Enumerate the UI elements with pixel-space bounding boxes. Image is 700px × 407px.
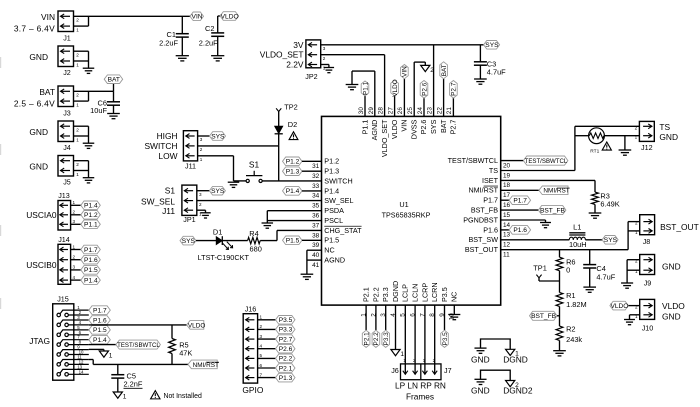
svg-text:2: 2 [76,53,79,58]
svg-text:VIN: VIN [402,66,409,77]
svg-text:SWITCH: SWITCH [144,141,177,151]
svg-text:J3: J3 [63,108,71,117]
capacitor C5 [111,364,143,392]
connector JP2 VLDO_SET [260,40,326,81]
wire VLDO from J15 pin 4 [89,324,187,326]
svg-text:31: 31 [312,163,320,170]
ground R3 [589,213,602,218]
svg-text:33: 33 [312,183,320,190]
svg-text:J11: J11 [162,206,175,216]
svg-text:1: 1 [323,66,326,71]
svg-text:P3.3: P3.3 [381,287,390,302]
net label P2.1 bottom [362,305,370,347]
svg-text:2: 2 [76,162,79,167]
net labels J16 [276,316,296,382]
svg-text:J5: J5 [63,177,71,186]
ground J9 [621,283,633,288]
svg-text:VLDO: VLDO [188,322,205,329]
svg-text:DGND2: DGND2 [503,386,533,396]
diode D2 [275,120,298,146]
svg-text:NMI/RST: NMI/RST [193,362,219,369]
svg-text:J14: J14 [58,235,70,244]
svg-text:VLDO: VLDO [392,79,399,96]
svg-text:P1.1: P1.1 [360,120,369,135]
svg-text:J15: J15 [57,295,69,304]
svg-text:2: 2 [200,147,203,152]
resistor R4 680 [222,229,277,253]
svg-text:30: 30 [358,107,365,115]
ground J4 [83,143,95,148]
svg-text:J9: J9 [644,279,652,288]
svg-text:P2.1: P2.1 [279,365,293,372]
svg-text:10uH: 10uH [569,240,587,249]
svg-text:C2: C2 [205,24,214,33]
svg-text:19: 19 [503,172,511,179]
svg-text:P2.7: P2.7 [279,336,293,343]
svg-text:SYS: SYS [182,238,196,245]
svg-text:GND: GND [29,127,48,137]
svg-text:NC: NC [324,246,334,255]
resistor R5 [169,325,193,365]
svg-text:Frames: Frames [406,391,434,401]
net label P1.1 top [361,81,369,116]
capacitor C4 4.7uF [583,250,616,287]
connector J5 GND [29,156,88,187]
svg-text:3: 3 [73,265,76,270]
svg-text:1: 1 [76,172,79,177]
svg-text:2: 2 [76,93,79,98]
svg-text:J12: J12 [641,143,653,152]
svg-text:GND: GND [662,262,681,272]
U1 left pin names and numbers [312,157,362,269]
svg-text:P1.4: P1.4 [84,203,98,210]
connector J8 BST_OUT [635,215,699,247]
svg-text:LCRN: LCRN [430,282,439,302]
net label SYS at JP1 [197,186,226,195]
svg-text:32: 32 [312,173,320,180]
svg-text:2: 2 [73,255,76,260]
svg-text:6.49K: 6.49K [600,199,619,208]
svg-text:2: 2 [430,67,434,74]
U1 top pin names and numbers [358,107,458,158]
net label SYS at L1 [602,236,618,245]
ground R2 [553,351,566,356]
wire J11 pin1 to ground [198,156,234,181]
svg-text:LCLN: LCLN [411,284,420,302]
svg-text:3: 3 [200,137,203,142]
ground C1 [176,56,189,61]
svg-text:680: 680 [250,245,262,254]
svg-text:BST_SW: BST_SW [468,235,498,244]
svg-text:BST_FB: BST_FB [471,206,498,215]
svg-text:P2.7: P2.7 [451,82,458,96]
svg-text:SW_SEL: SW_SEL [324,196,353,205]
capacitor C2 [199,16,224,56]
svg-text:NMI/RST: NMI/RST [543,188,569,195]
svg-text:P3.3: P3.3 [383,332,390,346]
svg-text:JP1: JP1 [183,215,195,224]
svg-text:ISET: ISET [482,176,499,185]
svg-text:24: 24 [417,107,424,115]
IC U1 TPS65835RKP [322,116,501,305]
dgnd 1 below C5 [113,392,127,400]
dgnd 1 at U1 pin 4 [391,305,405,358]
net label VIN [190,12,204,21]
svg-text:2.2nF: 2.2nF [124,380,143,389]
resistor R2 243k [556,325,582,351]
not installed warning [151,391,202,401]
svg-text:BAT: BAT [439,119,448,133]
wire CHG_STAT to U1 pin 38 [277,230,322,240]
svg-text:14: 14 [503,222,511,229]
svg-text:17: 17 [503,192,511,199]
svg-text:P1.5: P1.5 [84,267,98,274]
svg-text:41: 41 [312,262,320,269]
svg-text:P3.5: P3.5 [442,332,449,346]
svg-text:P2.6: P2.6 [279,346,293,353]
svg-text:J1: J1 [63,33,71,42]
wire TEST/SBWTCL from J15 pin 8 [89,344,116,346]
svg-text:P1.2: P1.2 [84,212,98,219]
svg-text:SWITCH: SWITCH [324,176,352,185]
svg-text:BST_OUT: BST_OUT [465,245,499,254]
svg-text:P1.7: P1.7 [513,198,527,205]
net label P1.7 at U1 pin 16 [501,196,531,205]
svg-text:1: 1 [200,157,203,162]
svg-text:2: 2 [635,125,638,130]
svg-text:DGND: DGND [503,355,528,365]
svg-text:P1.1: P1.1 [84,222,98,229]
svg-text:BST_OUT: BST_OUT [660,222,699,232]
svg-text:BAT: BAT [108,77,120,84]
net label P1.4 at U1 pin 34 [283,187,322,196]
connector J12 TS [635,121,678,152]
connector J14 USCIB0 [26,235,81,284]
svg-text:J8: J8 [643,237,651,246]
ground JP2 pin1 [321,65,334,73]
net label VLDO top [391,79,399,116]
dgnd 2 at U1 pin 25 DVSS [414,62,434,116]
ground C3 [474,79,487,84]
svg-text:21: 21 [446,107,453,115]
svg-text:3: 3 [73,219,76,224]
svg-text:6: 6 [260,363,263,368]
resistor R3 6.49K [501,180,620,213]
svg-text:P3.5: P3.5 [440,287,449,302]
test point TP1 [533,263,559,281]
capacitor C1 [159,16,189,55]
connector J13 USCIA0 [26,191,81,230]
wires LCLP LCLN LCRP LCRN to J6 J7 [405,305,434,374]
ground C6 [107,114,120,119]
svg-text:2: 2 [260,324,263,329]
svg-text:P1.7: P1.7 [483,196,498,205]
svg-text:LCRP: LCRP [420,283,429,302]
connector JP1 SW_SEL [141,185,202,224]
svg-text:1: 1 [76,27,79,32]
svg-text:GND: GND [662,312,681,322]
svg-text:2.5 – 6.4V: 2.5 – 6.4V [14,98,55,108]
ground J10 pin1 [624,315,640,325]
wire VIN net [74,16,191,26]
svg-text:GND: GND [29,52,48,62]
net labels J15 P1.7 P1.6 P1.5 P1.4 [89,306,111,344]
svg-text:29: 29 [368,107,375,115]
net label P2.2 bottom [372,305,380,347]
svg-text:P2.6: P2.6 [421,82,428,96]
svg-text:1: 1 [76,102,79,107]
svg-text:1: 1 [635,135,638,140]
svg-text:P1.7: P1.7 [84,247,98,254]
svg-text:SYS: SYS [211,133,225,140]
svg-text:P2.2: P2.2 [279,356,293,363]
ground PSDA/PSCL [262,223,274,228]
svg-text:J16: J16 [245,304,257,313]
ground at S1 left [228,182,240,187]
capacitor C6 [90,91,120,115]
svg-text:3: 3 [323,46,326,51]
svg-text:P1.6: P1.6 [513,227,527,234]
label BST_FB at U1 pin 15 [501,206,566,215]
svg-text:11: 11 [503,252,510,259]
svg-text:P2.2: P2.2 [371,287,380,302]
LED D1 LTST-C190CKT [196,227,250,262]
svg-text:TS: TS [659,122,670,132]
svg-text:HIGH: HIGH [157,131,178,141]
svg-text:TP2: TP2 [284,102,298,111]
net label VLDO [220,12,239,21]
svg-text:GND: GND [471,386,490,396]
svg-text:L1: L1 [573,223,581,232]
connector J9 GND [627,255,681,288]
ground C4 [583,287,596,292]
svg-text:P1.6: P1.6 [84,257,98,264]
label NMI/RST at U1 pin 17 [501,186,570,195]
net label P3.3 bottom [382,305,390,347]
svg-text:PSCL: PSCL [324,216,343,225]
connector J11 HIGH SWITCH LOW [144,131,202,171]
ground at J12 pin1 [619,136,632,156]
connector J10 VLDO [635,299,685,332]
svg-text:12: 12 [503,242,511,249]
svg-text:TP1: TP1 [533,263,547,272]
svg-text:27: 27 [387,107,394,115]
svg-text:TEST/SBWTCL: TEST/SBWTCL [448,156,498,165]
svg-text:CHG_STAT: CHG_STAT [324,226,362,235]
svg-text:13: 13 [503,232,511,239]
svg-text:2: 2 [635,221,638,226]
label TEST/SBWTCL at U1 pin 20 [501,156,568,165]
svg-text:2: 2 [199,202,202,207]
svg-text:10uF: 10uF [90,106,107,115]
svg-text:J2: J2 [63,68,71,77]
svg-text:1: 1 [76,137,79,142]
svg-text:SYS: SYS [604,237,618,244]
svg-text:2: 2 [76,128,79,133]
svg-text:243k: 243k [566,335,582,344]
svg-text:4: 4 [260,344,263,349]
svg-text:1: 1 [73,200,76,205]
svg-text:SYS: SYS [429,119,438,134]
wire NC AGND pins 40 41 to ground [307,250,322,274]
svg-text:4: 4 [73,275,76,280]
dgnd 1 at J15 pin 9 [89,349,113,359]
svg-text:3: 3 [260,334,263,339]
connector J1 VIN [14,11,79,42]
svg-text:R2: R2 [566,325,575,334]
svg-text:18: 18 [503,182,511,189]
net label SYS top [484,41,500,50]
svg-text:NC: NC [450,292,459,302]
svg-text:1: 1 [635,269,638,274]
net label BAT [104,75,123,91]
svg-text:2: 2 [76,18,79,23]
net label SYS at D1 [180,236,196,245]
svg-text:P1.4: P1.4 [286,188,300,195]
svg-text:36: 36 [312,213,320,220]
svg-text:VIN: VIN [41,12,55,22]
svg-text:J10: J10 [642,324,654,333]
connector J3 BAT [14,86,114,117]
net label P1.2 at U1 pin 31 [283,157,322,166]
net label P2.7 top [450,81,458,117]
ground C2 [211,56,224,61]
svg-text:35: 35 [312,203,320,210]
svg-text:1: 1 [400,351,404,358]
svg-text:P1.4: P1.4 [93,337,107,344]
svg-text:GPIO: GPIO [242,385,263,395]
ground JP1 pin1 [197,210,211,218]
svg-text:BST_FB: BST_FB [540,207,566,214]
net label P3.5 bottom [441,305,449,347]
svg-text:20: 20 [503,162,511,169]
svg-text:BAT: BAT [39,87,55,97]
svg-text:D2: D2 [288,120,297,129]
svg-text:JP2: JP2 [305,72,317,81]
net label P1.3 at U1 pin 32 [283,167,322,176]
label TEST/SBWTCL at J15 [116,340,160,349]
U1 right pin names and numbers [448,156,511,259]
resistor R6 0 [556,250,575,293]
svg-text:VIN: VIN [192,14,203,21]
svg-text:0: 0 [566,266,570,275]
svg-text:4.7uF: 4.7uF [487,68,506,77]
connector J2 GND [29,46,88,77]
svg-text:1: 1 [199,211,202,216]
svg-text:40: 40 [312,252,320,259]
svg-text:26: 26 [397,107,404,115]
svg-text:PSDA: PSDA [324,206,344,215]
net labels J14 [81,245,101,284]
svg-text:3.7 – 6.4V: 3.7 – 6.4V [14,23,55,33]
svg-text:P1.6: P1.6 [483,225,498,234]
connector J6 J7 Frames [391,358,451,401]
ground NC pin 10 [448,305,460,320]
connector J4 GND [29,121,88,152]
svg-text:P3.5: P3.5 [279,317,293,324]
capacitor C3 [474,45,506,79]
svg-text:P2.7: P2.7 [449,120,458,135]
svg-text:J6: J6 [391,366,399,375]
svg-text:DGND: DGND [391,281,400,302]
net label VLDO at R5 [187,321,206,330]
wire PSDA PSCL to ground [267,211,321,223]
svg-text:P1.4: P1.4 [324,186,339,195]
svg-text:LP LN RP RN: LP LN RP RN [395,381,446,391]
svg-text:P3.3: P3.3 [279,327,293,334]
ground PGNDBST pin 14 [501,220,551,228]
svg-text:TPS65835RKP: TPS65835RKP [382,211,431,220]
net label SYS at J11 [198,132,226,141]
wire J11 pin2 SWITCH net [198,145,279,147]
svg-text:2: 2 [73,210,76,215]
wire SYS from JP2 pin3 [321,44,484,46]
svg-text:P1.3: P1.3 [286,169,300,176]
svg-text:P2.6: P2.6 [419,120,428,135]
svg-text:TEST/SBWTCL: TEST/SBWTCL [117,342,160,349]
svg-text:VLDO_SET: VLDO_SET [260,50,304,60]
label BST_FB at R1/R2 [530,311,560,320]
page edge marks [0,57,1,309]
svg-text:1: 1 [76,62,79,67]
GND-DGND tie 1 [471,339,528,365]
svg-text:1: 1 [635,230,638,235]
svg-text:P1.1: P1.1 [362,81,369,95]
resistor R1 1.82M [556,291,587,326]
svg-text:J7: J7 [444,366,452,375]
svg-text:R4: R4 [249,229,258,238]
wire SWITCH net vertical [278,146,280,181]
svg-text:P2.1: P2.1 [363,332,370,346]
svg-text:P1.6: P1.6 [93,317,107,324]
svg-text:47K: 47K [179,349,192,358]
inductor L1 10uH [501,223,602,249]
svg-text:2.2uF: 2.2uF [159,38,178,47]
wire U1 pin 29 AGND to ground [352,71,375,116]
svg-text:14: 14 [79,369,84,374]
GND-DGND2 tie 2 [471,370,533,395]
svg-text:3: 3 [199,192,202,197]
svg-text:SYS: SYS [211,188,225,195]
svg-text:VLDO: VLDO [221,13,239,20]
svg-text:LTST-C190CKT: LTST-C190CKT [198,253,250,262]
connector J16 GPIO [242,304,275,395]
svg-text:1: 1 [73,244,76,249]
svg-text:2: 2 [635,259,638,264]
svg-text:P1.2: P1.2 [324,157,339,166]
wire U1 pin 23 SYS [433,45,435,117]
svg-text:J11: J11 [185,162,196,171]
svg-text:AGND: AGND [370,120,379,141]
ground U1 AGND top [346,85,359,90]
svg-text:BST_FB: BST_FB [531,313,557,320]
svg-text:J4: J4 [63,143,71,152]
svg-text:1: 1 [123,393,127,400]
svg-text:BAT: BAT [441,64,448,76]
svg-text:VIN: VIN [400,120,409,132]
svg-text:34: 34 [312,193,320,200]
svg-text:2: 2 [323,56,326,61]
svg-text:P1.5: P1.5 [324,236,339,245]
svg-text:DVSS: DVSS [409,119,418,139]
svg-text:USCIA0: USCIA0 [26,210,57,220]
svg-text:2.2V: 2.2V [286,60,304,70]
svg-text:GND: GND [471,355,490,365]
svg-text:Not Installed: Not Installed [164,393,202,400]
net label P1.6 at U1 pin 13 [501,226,531,235]
svg-text:7: 7 [260,372,263,377]
test point TP2 [276,102,298,126]
